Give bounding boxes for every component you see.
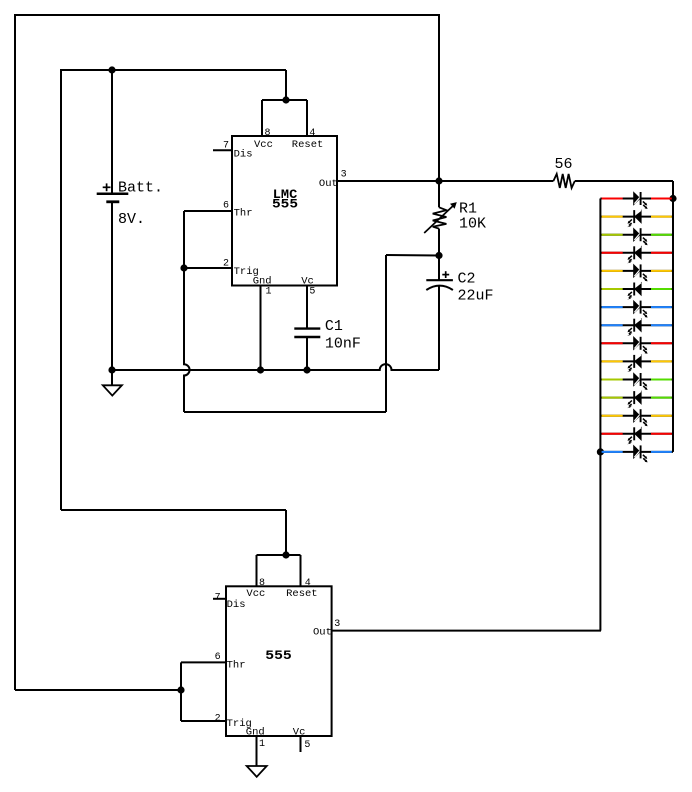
wire segment left (red) row 4: [602, 252, 623, 254]
resistor R1 zigzag body (10K pot): [433, 207, 447, 228]
wire: outer loop from bottom-left up across top to Out node: [15, 15, 439, 690]
wire: U2 pin 5 Vc stub: [300, 736, 302, 752]
wire: vertical drop to U2 supply bridge: [285, 510, 287, 555]
wire LED row 8 (blue): [600, 324, 673, 326]
wire segment right (blue) row 15: [651, 451, 672, 453]
wire: LED bus down to U2 Out: [599, 452, 601, 631]
wire LED row 11 (green): [600, 379, 673, 381]
LED D10 (yellow, left-pointing): [627, 355, 641, 372]
wire LED row 7 (blue): [600, 306, 673, 308]
wire: U2 pin 3 Out to LED bus: [332, 630, 601, 632]
wire segment left (blue) row 7: [602, 306, 623, 308]
svg-text:Vc: Vc: [293, 727, 306, 739]
svg-text:555: 555: [272, 198, 298, 212]
wire: ground rail with hop over vertical at x=386: [112, 364, 439, 370]
ground symbol (U2): [247, 766, 267, 777]
svg-text:C1: C1: [325, 318, 343, 335]
wire segment left (yellow) row 2: [602, 216, 623, 218]
wire: U1 pin 5 Vc to C1: [306, 286, 308, 329]
node: U1 Out junction: [435, 177, 442, 184]
wire: drop from Vcc rail to U1 supply bridge: [285, 70, 287, 100]
wire: U1 pin 1 Gnd to rail: [260, 286, 262, 371]
wire segment left (green) row 11: [602, 379, 623, 381]
LED D2 (yellow, left-pointing): [627, 210, 641, 227]
wire segment right (red) row 4: [651, 252, 672, 254]
wire segment right (yellow) row 5: [651, 270, 672, 272]
wire segment right (green) row 12: [651, 397, 672, 399]
svg-text:5: 5: [309, 287, 315, 298]
wire LED row 12 (green): [600, 397, 673, 399]
wire: U2 pin 1 Gnd lead: [256, 736, 258, 766]
svg-text:Dis: Dis: [234, 148, 253, 160]
wire segment left (green) row 12: [602, 397, 623, 399]
wire: lower link horizontal: [184, 411, 386, 413]
wire LED row 1 (red): [600, 198, 673, 200]
wire: U1 pin 4 Reset: [306, 100, 308, 136]
wire: U2 Thr-Trig vertical: [180, 662, 182, 721]
node: battery - / ground rail junction: [108, 366, 115, 373]
ground symbol (battery): [103, 370, 122, 396]
wire LED row 3 (green): [600, 234, 673, 236]
node: battery + to Vcc rail junction: [108, 66, 115, 73]
wire: U2 pin 8 Vcc: [256, 555, 258, 586]
wire segment left (red) row 9: [602, 342, 623, 344]
wire: U2 pin 2 Trig: [181, 720, 226, 722]
wire: link to C2 top node: [386, 254, 439, 257]
wire: U1 pin 2 Trig: [184, 267, 232, 269]
wire: U2 pin 6 Thr: [181, 661, 226, 663]
svg-text:Thr: Thr: [227, 660, 246, 672]
svg-text:2: 2: [223, 259, 229, 270]
wire LED row 2 (yellow): [600, 216, 673, 218]
wire: C1 to ground rail: [306, 337, 308, 370]
C2 plus sign: [442, 271, 449, 278]
battery BT1 negative plate: [106, 200, 119, 203]
wire segment left (yellow) row 10: [602, 360, 623, 362]
wire: left inner vertical from Vcc rail down to lower 555 feed: [61, 70, 286, 510]
svg-text:7: 7: [223, 140, 229, 151]
svg-text:Vcc: Vcc: [246, 588, 265, 600]
svg-text:1: 1: [259, 739, 265, 750]
node: C1/rail junction: [303, 366, 310, 373]
svg-text:Thr: Thr: [234, 208, 253, 220]
svg-text:8: 8: [265, 128, 271, 139]
svg-text:6: 6: [215, 652, 221, 663]
svg-text:Vcc: Vcc: [254, 139, 273, 151]
LED D5 (yellow, right-pointing): [634, 264, 648, 281]
LED D7 (blue, right-pointing): [634, 301, 648, 318]
svg-text:6: 6: [223, 200, 229, 211]
wire segment right (green) row 6: [651, 288, 672, 290]
LED D4 (red, left-pointing): [627, 246, 641, 263]
svg-text:2: 2: [215, 713, 221, 724]
svg-text:56: 56: [555, 156, 573, 173]
wire segment left (yellow) row 5: [602, 270, 623, 272]
node: U1 supply bridge junction: [282, 96, 289, 103]
svg-text:Reset: Reset: [292, 139, 324, 151]
LED D9 (red, right-pointing): [634, 337, 648, 354]
LED D14 (red, left-pointing): [627, 427, 641, 444]
wire segment right (red) row 1: [651, 198, 672, 200]
node: LED bus top junction: [669, 195, 676, 202]
wire LED row 6 (green): [600, 288, 673, 290]
battery BT1 plus sign: [103, 183, 111, 191]
wire: U2 pin 4 Reset: [300, 555, 302, 586]
wire segment right (green) row 3: [651, 234, 672, 236]
svg-text:22uF: 22uF: [458, 288, 494, 305]
wire segment left (red) row 14: [602, 433, 623, 435]
svg-text:Reset: Reset: [286, 588, 318, 600]
wire: U1 supply bridge pin8-pin4: [262, 99, 307, 101]
wire LED row 15 (blue): [600, 451, 673, 453]
wire: LED right bus: [672, 181, 674, 452]
LED D11 (green, right-pointing): [634, 373, 648, 390]
wire segment left (yellow) row 13: [602, 415, 623, 417]
wire: lower link vertical to C2 node: [385, 255, 387, 412]
wire: Thr-Trig vertical, hops ground rail, down to lower link: [184, 211, 190, 412]
capacitor C1: [294, 329, 320, 337]
svg-text:1: 1: [266, 287, 272, 298]
wire segment left (green) row 6: [602, 288, 623, 290]
wire segment right (red) row 9: [651, 342, 672, 344]
LED D1 (red, right-pointing): [634, 192, 648, 209]
wire: U1 pin 8 Vcc: [261, 100, 263, 136]
svg-text:Dis: Dis: [227, 599, 246, 611]
wire segment left (green) row 3: [602, 234, 623, 236]
wire LED row 5 (yellow): [600, 270, 673, 272]
node: R1/C2 junction: [435, 252, 442, 259]
svg-text:C2: C2: [458, 271, 476, 288]
wire: horizontal feed to U2 supply: [61, 509, 286, 511]
LED D12 (green, left-pointing): [627, 391, 641, 408]
wire: R1 top lead: [438, 181, 440, 207]
wire segment left (blue) row 8: [602, 324, 623, 326]
LED D8 (blue, left-pointing): [627, 319, 641, 336]
wire: battery - lead to ground rail: [111, 202, 113, 370]
wire: battery + lead: [111, 70, 113, 194]
svg-text:4: 4: [309, 128, 315, 139]
node: LED bus bottom junction: [597, 448, 604, 455]
svg-text:3: 3: [334, 619, 340, 630]
wire: R1 bottom lead: [438, 229, 440, 256]
wire segment left (red) row 1: [602, 198, 623, 200]
wire: U1 pin 6 Thr: [184, 210, 232, 212]
wire: U1 pin 3 Out: [337, 180, 439, 182]
wire LED row 4 (red): [600, 252, 673, 254]
svg-text:Out: Out: [319, 178, 338, 190]
wire: LED left bus: [599, 199, 601, 452]
wire segment right (blue) row 8: [651, 324, 672, 326]
svg-text:8V.: 8V.: [118, 211, 145, 228]
svg-text:Batt.: Batt.: [118, 180, 163, 197]
LED D3 (green, right-pointing): [634, 228, 648, 245]
wire LED row 14 (red): [600, 433, 673, 435]
wire LED row 9 (red): [600, 342, 673, 344]
wire: Out to R2 left lead: [439, 180, 553, 182]
wire LED row 13 (yellow): [600, 415, 673, 417]
svg-text:Gnd: Gnd: [246, 727, 265, 739]
svg-text:7: 7: [215, 593, 221, 604]
wire LED row 10 (yellow): [600, 360, 673, 362]
svg-text:3: 3: [341, 169, 347, 180]
svg-text:10K: 10K: [459, 216, 486, 233]
svg-text:555: 555: [265, 649, 292, 663]
op-amp/IC U1 LMC555 body: [232, 136, 337, 286]
wire: U2 supply bridge pin8-pin4: [257, 554, 301, 556]
wire: C2 bottom lead to ground rail: [438, 286, 440, 371]
svg-text:5: 5: [304, 740, 310, 751]
node: Thr/Trig junction: [180, 264, 187, 271]
svg-text:Vc: Vc: [301, 276, 314, 288]
LED D15 (blue, right-pointing): [634, 445, 648, 462]
op-amp/IC U2 555 body: [226, 586, 332, 736]
svg-text:Gnd: Gnd: [253, 276, 272, 288]
svg-text:Out: Out: [313, 626, 332, 638]
wire segment right (green) row 11: [651, 379, 672, 381]
wire segment right (blue) row 7: [651, 306, 672, 308]
svg-text:10nF: 10nF: [325, 336, 361, 353]
wire: R2 right lead to LED bus: [575, 180, 673, 182]
wire segment right (yellow) row 2: [651, 216, 672, 218]
wire: U2 pin 7 Dis stub: [213, 598, 226, 600]
wire segment right (red) row 14: [651, 433, 672, 435]
node: pin1/rail junction: [257, 366, 264, 373]
node: U2 supply bridge junction: [282, 551, 289, 558]
wire segment right (yellow) row 13: [651, 415, 672, 417]
capacitor C2 (polarized): [426, 280, 453, 290]
wire segment left (blue) row 15: [602, 451, 623, 453]
wire: U1 pin 7 Dis stub: [213, 149, 232, 151]
R1 adjustment arrow: [424, 202, 457, 233]
wire: C2 top lead: [438, 256, 440, 281]
wire: feedback from outer loop to U2 Thr/Trig: [15, 689, 181, 691]
LED D13 (yellow, right-pointing): [634, 409, 648, 426]
node: U2 Thr/Trig junction: [177, 686, 184, 693]
resistor R2 zigzag body (56): [553, 174, 574, 188]
battery BT1 positive plate: [97, 193, 129, 196]
LED D6 (green, left-pointing): [627, 283, 641, 300]
wire segment right (yellow) row 10: [651, 360, 672, 362]
